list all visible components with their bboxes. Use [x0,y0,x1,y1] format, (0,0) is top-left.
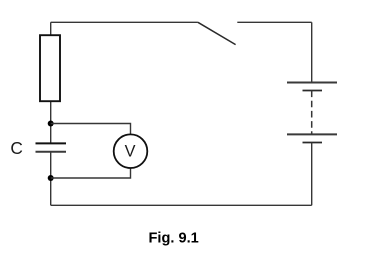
capacitor C bottom plate [36,151,67,153]
switch S1 (open lever) [198,22,236,44]
battery cell 1 long plate (+) [287,82,337,84]
svg-text:C: C [10,138,22,158]
wire: left vertical from resistor bottom to capacitor top plate [50,101,52,143]
wire: voltmeter branch top [51,124,131,135]
svg-text:V: V [125,142,136,160]
wire: left vertical from capacitor bottom plate to bottom-left corner [50,152,52,206]
battery cell 1 short plate (-) [303,90,323,92]
svg-text:Fig. 9.1: Fig. 9.1 [149,231,199,247]
wire: right vertical from top-right corner to battery [311,22,313,82]
node A (junction dot top) [48,121,54,127]
wire: top horizontal from left corner to switch pivot [51,21,198,23]
voltmeter V (circle) [114,134,148,168]
battery cell 2 short plate (-) [303,142,323,144]
capacitor C top plate [36,142,67,144]
wire: right vertical from battery to bottom-right corner [311,143,313,206]
wire: dashed link between battery cells [311,91,313,135]
wire: bottom horizontal [51,204,312,206]
wire: top horizontal from switch contact to top-right corner [237,21,311,23]
wire: top-left vertical stub from corner to resistor top [50,22,52,35]
resistor R1 (box) [40,35,60,101]
battery cell 2 long plate (+) [287,133,337,135]
wire: voltmeter branch bottom [51,168,131,178]
node B (junction dot bottom) [48,175,54,181]
